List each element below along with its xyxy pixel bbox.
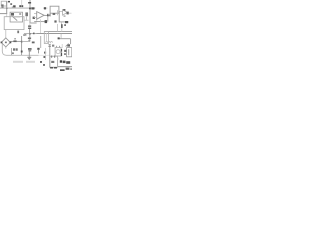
zener lead vertical — [61, 22, 63, 24]
transistor lead tick — [63, 9, 65, 11]
bridge rectifier BR1 diamond — [1, 38, 10, 47]
transformer T1 outer box — [4, 17, 24, 30]
faint stub right of symbol — [69, 12, 72, 14]
battery terminal tick b — [54, 56, 55, 58]
caption smudge mid — [26, 61, 35, 63]
battery plate short — [61, 53, 62, 56]
node dot right — [44, 7, 46, 9]
resistor R3 bar — [28, 38, 31, 40]
BR1 center marks — [5, 42, 7, 44]
feedback vertical faint — [40, 19, 42, 33]
label 12V dark bar — [60, 60, 62, 62]
bus left y33.5 — [24, 33, 37, 35]
battery box outline — [50, 56, 58, 67]
tick left of wire — [58, 37, 60, 39]
capacitor C3 lower plate — [28, 28, 31, 29]
R3 lower marks — [28, 40, 30, 41]
junction dot near x12 — [12, 52, 14, 54]
faint wire stub near node — [43, 7, 48, 9]
right box R — [67, 48, 72, 57]
tap tick below box — [17, 31, 19, 34]
wire top right y11 — [59, 10, 63, 12]
output node vertical — [47, 16, 49, 21]
ground symbol bar1 — [27, 56, 31, 59]
wire horizontal y23 — [30, 22, 36, 24]
junction dot x21.5 low — [21, 51, 23, 53]
wire stub x26 — [26, 16, 28, 20]
C4 lead vertical — [38, 50, 40, 54]
op-amp input stub b — [34, 17, 37, 19]
zener tick right — [61, 24, 63, 28]
dot pair col2 — [44, 56, 46, 58]
op-amp U1 triangle — [37, 12, 44, 20]
battery bottom dark edge — [50, 67, 53, 69]
relay contact line — [14, 16, 20, 18]
tick on bus — [33, 33, 35, 35]
battery inner dot — [52, 61, 54, 63]
bottom wire y66.6 — [58, 66, 72, 68]
label blob below box — [52, 45, 54, 47]
capacitor plates below box a — [49, 44, 51, 45]
wire horizontal y20 — [24, 19, 29, 21]
faint vertical x45.5 — [45, 48, 47, 60]
faint dot above line — [57, 58, 58, 59]
op-amp bottom stub — [36, 19, 38, 22]
faint swoosh wire — [2, 44, 11, 55]
diode D2 diagonal — [67, 44, 70, 46]
battery terminal tick a — [51, 56, 52, 58]
relay pin marks — [19, 13, 21, 15]
capacitor C5 blob — [28, 48, 32, 50]
bus lower y33.4 — [37, 33, 73, 35]
bottom dark dash — [60, 69, 65, 71]
BR1 right terminal dot — [10, 42, 12, 44]
wire vertical x30.3 — [29, 8, 31, 10]
fuse lead vertical faint — [21, 0, 23, 5]
tick below bus left — [25, 34, 26, 36]
label text smudge — [1, 5, 3, 6]
ground lead vertical — [28, 51, 30, 56]
secondary vertical wire x21.5 — [21, 36, 23, 55]
battery box left edge — [49, 44, 51, 67]
small mark below symbol — [64, 15, 66, 16]
node dot right bus — [64, 24, 66, 26]
meter M1 circle — [56, 50, 60, 54]
relay coil dark rect — [11, 13, 14, 16]
twin boxes component b — [16, 48, 18, 50]
label V blob — [66, 61, 70, 64]
BR1 left terminal dot — [1, 42, 3, 44]
long bottom bus y55.3 — [12, 54, 39, 56]
meter terminal tick b — [59, 46, 61, 48]
dark segment on wire — [65, 21, 68, 23]
ground symbol bar3 — [29, 58, 30, 61]
battery plate long — [61, 49, 62, 52]
vertical x61 faint — [60, 34, 62, 39]
fuse F1 dot b — [21, 5, 23, 7]
vertical mid x29.7 upper — [29, 34, 31, 42]
wire horizontal x0-7 y13.5 — [0, 13, 7, 15]
transistor blob right — [67, 12, 69, 15]
wire vertical left — [6, 2, 8, 14]
transistor Q1 triangle top right — [63, 10, 68, 16]
label smudge lower dash — [1, 6, 3, 7]
faint vertical x62 — [61, 44, 63, 48]
wire y38.6 right — [58, 38, 70, 40]
cap lead vertical — [29, 29, 31, 34]
wire into diamond top — [5, 30, 7, 38]
bottom bus faint right — [39, 54, 50, 56]
D2 extra mark — [66, 44, 69, 47]
node dot below box — [54, 20, 56, 22]
tiny dot right edge — [70, 68, 72, 70]
capacitor C5 lower plate — [28, 50, 31, 51]
label smudge mid — [32, 42, 35, 44]
top bus wire y8 — [0, 7, 35, 9]
label marks mid — [33, 17, 35, 19]
op-amp input stub a — [34, 13, 37, 15]
R2 label marks — [14, 38, 16, 39]
relay switch diagonal — [12, 16, 17, 20]
small dark dot a — [40, 61, 42, 63]
switch S1 blob — [13, 5, 16, 7]
bottom marks right — [66, 68, 70, 70]
top-left label box — [1, 1, 6, 6]
twin boxes component — [13, 48, 15, 50]
vertical x57.5 faint — [57, 24, 59, 31]
op-amp output wire — [44, 14, 50, 16]
junction dot top-left — [6, 8, 8, 10]
caption smudge left — [13, 61, 23, 63]
wire horizontal y41.3 — [10, 40, 21, 42]
diode D1 blob — [31, 7, 34, 9]
right box inner mark — [68, 49, 70, 55]
meter M1 box — [55, 48, 61, 56]
plug pin tick — [8, 1, 10, 3]
inductor L1 arcs — [46, 41, 53, 42]
ground symbol bar2 — [28, 57, 30, 60]
capacitor plates below box b — [49, 46, 51, 47]
battery cells dashes — [51, 61, 54, 63]
tick on bus left — [23, 34, 25, 36]
dot pair col1 — [44, 52, 46, 54]
relay K1 inner box — [10, 12, 22, 22]
cap top lead faint — [29, 23, 31, 25]
wire y21.9 right — [59, 21, 68, 23]
wire stub to box top — [6, 14, 8, 17]
regulator box top right — [50, 6, 59, 13]
bus upper y31.3 — [44, 30, 72, 32]
capacitor C2 plates — [45, 20, 48, 23]
resistor inside box faint — [46, 34, 48, 42]
resistor R2 bar — [13, 40, 16, 42]
wire vertical x70.5 — [70, 39, 72, 45]
box left lead vertical — [49, 13, 51, 16]
diamond bottom wire — [5, 47, 7, 49]
wire vertical x29.5 top — [29, 0, 31, 23]
cap marks under box — [53, 13, 56, 15]
label blob b — [63, 61, 66, 64]
capacitor bar at box edge — [49, 14, 50, 16]
wire vertical x11.5 — [11, 48, 13, 55]
plus sign dots — [64, 50, 66, 52]
minus dots — [64, 53, 66, 55]
connector tick — [28, 2, 31, 4]
junction dot x21.5 — [21, 41, 23, 43]
resistor R1 blob — [25, 12, 28, 16]
pin stub vertical — [56, 10, 58, 15]
wire horizontal y41.6 mid — [22, 41, 30, 43]
battery bottom dash b — [54, 67, 57, 69]
capacitor C3 plates stack — [28, 26, 31, 27]
bus junction dot — [29, 33, 31, 35]
vertical x40.7 lower — [40, 36, 42, 48]
capacitor C4 top tick — [37, 48, 39, 50]
wire below op-amp y21.5 — [34, 21, 46, 23]
fuse dot — [10, 3, 12, 5]
junction tick on output — [47, 14, 48, 17]
zener lower lead faint — [61, 28, 63, 31]
wire y21.8 right — [58, 11, 60, 22]
node dot — [12, 6, 13, 7]
fuse F1 blob — [19, 5, 21, 7]
box mid faint — [44, 31, 48, 43]
meter terminal tick a — [56, 46, 58, 48]
small dark dot b — [43, 64, 45, 66]
